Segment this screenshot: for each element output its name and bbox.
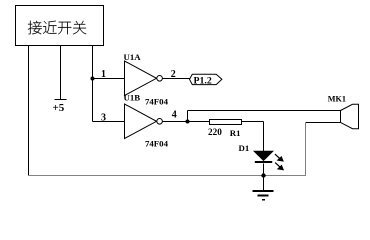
op-amp U1A inverter triangle	[125, 61, 163, 96]
power +5 bar	[55, 99, 67, 101]
svg-text:1: 1	[101, 69, 106, 80]
svg-text:U1A: U1A	[124, 52, 142, 62]
ground	[253, 191, 274, 200]
node junction led-ground	[261, 173, 265, 177]
wire resistor to led	[242, 121, 264, 123]
svg-text:MK1: MK1	[328, 95, 346, 104]
wire	[305, 123, 307, 176]
svg-text:220: 220	[208, 127, 222, 137]
wire top to speaker	[188, 110, 341, 112]
node junction pin4	[186, 120, 190, 124]
label 接近开关	[28, 21, 86, 35]
svg-text:R1: R1	[230, 128, 241, 138]
svg-text:+5: +5	[53, 102, 65, 114]
svg-text:74F04: 74F04	[145, 96, 169, 106]
svg-text:3: 3	[101, 113, 106, 124]
wire pin1	[93, 78, 125, 80]
diode D1 LED	[254, 151, 273, 162]
svg-text:4: 4	[172, 110, 177, 121]
svg-text:2: 2	[171, 69, 176, 80]
svg-text:74F04: 74F04	[145, 138, 169, 148]
svg-text:D1: D1	[239, 143, 250, 153]
port P1.2	[190, 74, 222, 84]
wire pin3	[93, 121, 125, 123]
wire	[60, 46, 62, 100]
wire ground stub	[263, 176, 265, 191]
node junction pin1	[91, 77, 95, 81]
svg-text:U1B: U1B	[124, 93, 141, 103]
resistor R1	[210, 120, 242, 125]
wire pin2	[163, 78, 190, 80]
svg-text:P1.2: P1.2	[194, 75, 212, 86]
wire	[263, 122, 265, 152]
wire to top	[187, 111, 189, 122]
op-amp U1B inverter triangle	[125, 104, 163, 139]
wire bottom rail	[28, 175, 306, 177]
wire	[28, 46, 30, 176]
proximity switch box	[16, 6, 104, 46]
wire speaker bottom	[306, 122, 341, 124]
wire pin4	[163, 121, 210, 123]
speaker MK1	[341, 104, 359, 128]
wire	[92, 46, 94, 122]
wire	[263, 164, 265, 176]
LED arrows	[275, 154, 283, 170]
